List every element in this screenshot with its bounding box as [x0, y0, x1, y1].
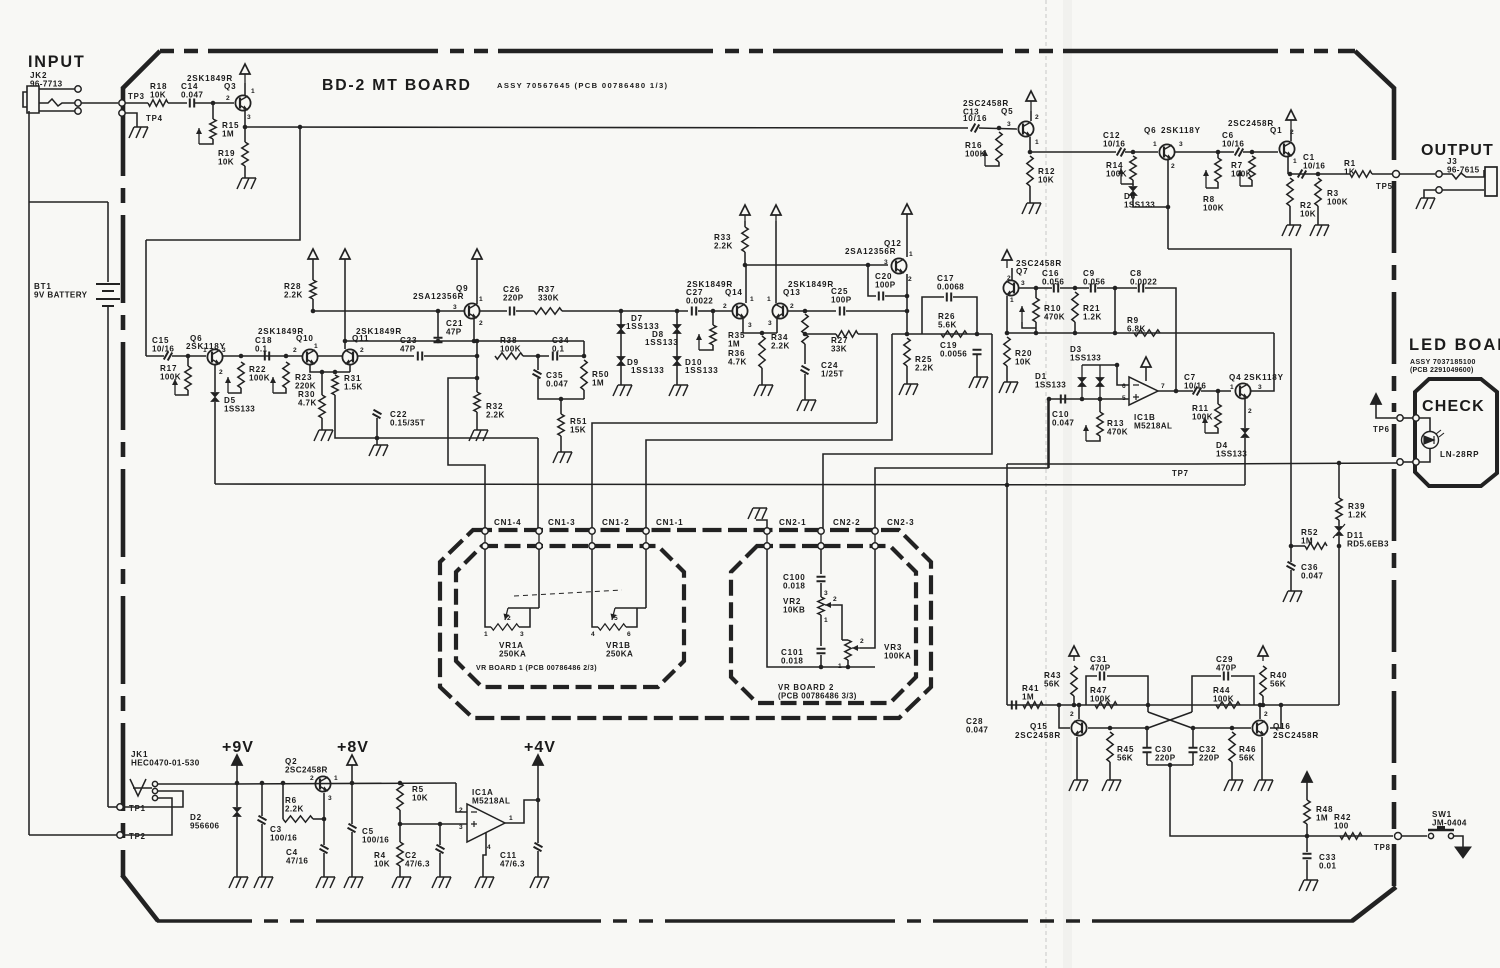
resistor R2: [1287, 178, 1293, 206]
svg-text:10/16: 10/16: [1222, 140, 1244, 149]
capacitor C19: [973, 350, 982, 354]
wire Q13 to C25: [788, 310, 836, 312]
svg-text:10/16: 10/16: [152, 345, 174, 354]
capacitor C26: [510, 307, 514, 316]
wire TP8 to SW1: [1402, 835, 1427, 837]
wire R6 left leg: [282, 783, 284, 819]
wire C15 to Qa: [172, 355, 206, 357]
wire R45 to ground: [1109, 762, 1111, 780]
capacitor C10: [1061, 395, 1065, 404]
resistor R26: [941, 331, 967, 337]
svg-text:2: 2: [226, 95, 230, 102]
ground under C19: [969, 377, 988, 388]
svg-text:220P: 220P: [503, 294, 524, 303]
resistor R23: [283, 362, 289, 388]
wire C101 to rail: [820, 655, 822, 667]
svg-text:TP4: TP4: [146, 114, 163, 123]
wire VR1A right lead: [519, 608, 530, 627]
svg-text:0.047: 0.047: [181, 91, 203, 100]
resistor R48: [1304, 800, 1310, 824]
power arrow IC1B: [1141, 357, 1151, 367]
wire J3 sleeve to ground: [1424, 190, 1436, 198]
connector CN2-3 pin (board side): [872, 528, 878, 534]
op-amp IC1A: [467, 804, 505, 842]
wire C34 to node B: [559, 355, 584, 357]
node C36 top: [1289, 544, 1294, 549]
svg-text:4.7K: 4.7K: [298, 399, 317, 408]
wire R21 bottom: [1074, 322, 1076, 333]
wire input signal to TP3: [81, 102, 118, 104]
node D2 bottom: [1098, 397, 1103, 402]
svg-text:1: 1: [909, 251, 913, 258]
svg-text:ASSY 70567645 (PCB 00786480 1/: ASSY 70567645 (PCB 00786480 1/3): [497, 81, 668, 90]
connector CN1-2 pin (VR side): [589, 543, 595, 549]
capacitor C34: [553, 352, 557, 361]
wire R38 to C34: [523, 355, 549, 357]
wire VR1B wiper box: [615, 607, 646, 609]
power arrow Q5: [1026, 91, 1036, 101]
node CN1-4 tap: [475, 376, 480, 381]
wire rail R9: [1007, 332, 1176, 334]
node cross left top: [1146, 703, 1151, 708]
wire R33 to base rail: [744, 252, 746, 265]
wire Q6b feedback to R52 column: [1168, 249, 1291, 546]
wire R5 to R4 node: [399, 810, 401, 842]
wire R52 to C36: [1291, 545, 1305, 547]
wire Q4 source right up: [1251, 333, 1274, 391]
wire C3 to ground: [261, 824, 263, 877]
svg-text:TP6: TP6: [1373, 425, 1390, 434]
wire C24 to ground: [804, 374, 806, 400]
svg-text:100K: 100K: [500, 345, 521, 354]
node R21 top: [1073, 286, 1078, 291]
wire JK1 sw loop2: [124, 798, 172, 835]
wire C20 branch: [868, 265, 876, 296]
svg-text:0.047: 0.047: [1052, 419, 1074, 428]
svg-text:100K: 100K: [965, 150, 986, 159]
transistor Q6 (2SK118Y): [207, 349, 222, 364]
wire R23 loop: [273, 388, 286, 393]
svg-text:6: 6: [627, 631, 631, 638]
svg-text:470P: 470P: [1090, 664, 1111, 673]
wire VR3 wiper to CN2-3: [860, 549, 875, 648]
node Q7/R20: [1005, 331, 1010, 336]
diode D2: [1096, 378, 1104, 387]
node R51 top: [559, 397, 564, 402]
svg-text:(PCB 00786486 3/3): (PCB 00786486 3/3): [778, 692, 857, 701]
wire C4 column: [323, 819, 325, 845]
resistor R1: [1350, 171, 1372, 177]
resistor R42: [1340, 833, 1362, 839]
wire row y341: [345, 340, 584, 342]
svg-text:HEC0470-01-530: HEC0470-01-530: [131, 759, 200, 768]
wire R17 lead: [187, 356, 189, 366]
wire C31 loop right: [1107, 676, 1148, 705]
svg-text:3: 3: [459, 824, 463, 831]
wire R10 bottom: [1035, 322, 1037, 333]
svg-text:Q13: Q13: [783, 288, 801, 297]
potentiometer VR1A: [491, 624, 519, 630]
svg-text:47/6.3: 47/6.3: [405, 860, 430, 869]
wire IC1A pin4: [483, 833, 486, 877]
wire IC1A out to +4V node: [505, 800, 538, 823]
wire node B vertical: [583, 341, 585, 356]
wire R12 to ground: [1029, 186, 1031, 203]
wire J3 sleeve: [1442, 189, 1484, 191]
ground under D9: [613, 385, 632, 396]
wire jack sleeve down left: [28, 111, 30, 835]
wire Q16 base: [1270, 705, 1281, 728]
node R13 top: [1098, 397, 1103, 402]
resistor R52: [1305, 543, 1327, 549]
node A top: [475, 339, 480, 344]
svg-text:Q6: Q6: [1144, 126, 1156, 135]
wire R22 loop: [228, 388, 241, 393]
svg-text:3: 3: [1258, 384, 1262, 391]
ground under R2: [1282, 225, 1301, 236]
capacitor C11: [534, 843, 543, 851]
svg-text:2.2K: 2.2K: [714, 242, 733, 251]
svg-text:2: 2: [459, 807, 463, 814]
svg-text:100KA: 100KA: [884, 652, 911, 661]
resistor VR2: [818, 597, 824, 615]
wire C35 bottom: [538, 378, 584, 399]
power arrow Q7: [1002, 250, 1012, 260]
svg-text:1: 1: [750, 296, 754, 303]
wire C8 to corner: [1145, 288, 1176, 333]
resistor R9: [1134, 330, 1160, 336]
node R11 top: [1216, 389, 1221, 394]
transistor Q1: [1279, 141, 1294, 156]
wire +8V stem: [351, 765, 353, 783]
capacitor C9: [1091, 284, 1095, 293]
wire R2 ground lead: [1289, 206, 1291, 225]
node C9/C8 rail: [1113, 331, 1118, 336]
node R39 top: [1337, 461, 1342, 466]
wire R46 to ground: [1231, 762, 1233, 780]
wire TP6 to LED: [1419, 418, 1430, 431]
switch SW1 contact b: [1448, 833, 1453, 838]
wire Q11 out row: [358, 355, 414, 357]
svg-text:2SA12356R: 2SA12356R: [845, 247, 896, 256]
svg-text:47/16: 47/16: [286, 857, 308, 866]
ground under R3: [1310, 225, 1329, 236]
svg-text:96-7615: 96-7615: [1447, 166, 1480, 175]
wire Q13 drain up: [775, 221, 777, 303]
node R27 left: [803, 332, 808, 337]
wire Q15 collector: [1078, 705, 1080, 719]
svg-text:1: 1: [1293, 158, 1297, 165]
MT board outline: top-left chamfer: [122, 51, 160, 89]
svg-text:CN2-2: CN2-2: [833, 518, 860, 527]
wire C26 to R37: [516, 310, 534, 312]
svg-text:2: 2: [1171, 163, 1175, 170]
J3 sleeve contact: [1436, 187, 1442, 193]
test point TP6 (LED side): [1413, 415, 1419, 421]
wire JK1 sw loop1: [124, 791, 183, 807]
VR board 2 dashed box: [731, 546, 916, 703]
wire CN2-1 ground stub: [756, 520, 767, 528]
JK1 contact 3: [152, 795, 157, 800]
svg-text:1SS133: 1SS133: [1035, 381, 1066, 390]
svg-text:1SS133: 1SS133: [685, 366, 719, 375]
svg-text:470P: 470P: [1216, 664, 1237, 673]
wire TP7 link: [1402, 461, 1414, 463]
wire C3 column: [261, 783, 263, 816]
wire R14 loop: [1121, 180, 1133, 184]
svg-text:2: 2: [1248, 408, 1252, 415]
capacitor C14: [190, 99, 194, 108]
wire C20 to Q12 emitter: [885, 295, 908, 297]
ground under C11: [530, 877, 549, 888]
ground under R30: [314, 430, 333, 441]
ground under R51: [553, 452, 572, 463]
MT board outline: right edge segment: [1392, 469, 1397, 829]
wire R37 to diode ladder: [562, 310, 688, 312]
svg-text:CN1-2: CN1-2: [602, 518, 629, 527]
wire CN pin link: [766, 534, 768, 543]
svg-text:10K: 10K: [218, 158, 234, 167]
capacitor C17: [947, 293, 951, 302]
power arrow Q1: [1286, 110, 1296, 120]
svg-text:2: 2: [790, 303, 794, 310]
node Q12 emitter/C20: [905, 294, 910, 299]
node D box top: [1115, 363, 1120, 368]
capacitor C27: [692, 307, 696, 316]
svg-text:10K: 10K: [1300, 210, 1316, 219]
svg-text:3: 3: [824, 590, 828, 597]
wire Q6b source down: [1167, 160, 1169, 249]
svg-text:1: 1: [251, 88, 255, 95]
resistor R20: [1004, 337, 1010, 366]
svg-text:3: 3: [768, 320, 772, 327]
svg-text:TP5: TP5: [1376, 182, 1393, 191]
svg-text:2.2K: 2.2K: [771, 342, 790, 351]
svg-text:3: 3: [328, 795, 332, 802]
wire C27 to Q14: [698, 310, 713, 312]
wire R27 to riser: [858, 334, 877, 423]
resistor R22: [238, 362, 244, 388]
wire TP6 link: [1402, 417, 1414, 419]
resistor R12: [1027, 156, 1033, 186]
svg-text:LED BOARD: LED BOARD: [1409, 336, 1500, 354]
ground under C5: [344, 877, 363, 888]
svg-text:1M: 1M: [1316, 814, 1328, 823]
arrow R16: [984, 150, 986, 166]
svg-text:Q15: Q15: [1030, 722, 1048, 731]
node Vref: [398, 822, 403, 827]
svg-text:56K: 56K: [1239, 754, 1255, 763]
node R17 top: [186, 354, 191, 359]
node Q16 coll: [1258, 703, 1263, 708]
power arrow Q10/Q11 drains: [340, 249, 350, 259]
svg-text:10/16: 10/16: [1303, 162, 1325, 171]
svg-text:100P: 100P: [875, 281, 896, 290]
wire Q2 emitter down: [323, 793, 325, 819]
node R2 top: [1288, 172, 1293, 177]
svg-text:956606: 956606: [190, 822, 220, 831]
node R40 rail: [1261, 703, 1266, 708]
node C20 left: [866, 263, 871, 268]
wiper VR3: [852, 647, 860, 649]
wire C9 to C8: [1097, 287, 1137, 289]
wire R19 to ground: [244, 166, 246, 178]
capacitor C31: [1100, 672, 1104, 681]
JK1 contact 2: [152, 788, 157, 793]
wire C2 to ground: [439, 853, 441, 877]
diode D5: [211, 393, 219, 402]
wire C29 loop left: [1192, 676, 1221, 705]
MT board outline: top edge: [160, 49, 1355, 54]
capacitor C28: [1012, 701, 1016, 710]
MT board outline: left edge: [121, 88, 126, 876]
wire R33 leads: [744, 221, 746, 227]
svg-text:1: 1: [314, 343, 318, 350]
wire R33 bottom to Q14 drain: [745, 265, 747, 303]
svg-text:2.2K: 2.2K: [285, 805, 304, 814]
svg-text:TP7: TP7: [1172, 469, 1189, 478]
arrow R13: [1085, 425, 1087, 441]
node C4 top: [322, 817, 327, 822]
ground under R46: [1224, 780, 1243, 791]
ground under R25: [899, 384, 918, 395]
transistor Q4: [1235, 383, 1250, 398]
wire R51 to ground: [560, 436, 562, 452]
power arrow R43: [1069, 646, 1079, 656]
chassis ground under SW1: [1455, 847, 1471, 858]
test point TP6 (board): [1397, 415, 1403, 421]
wire R11 loop: [1205, 428, 1218, 433]
MT board outline: bottom-left chamfer: [122, 875, 158, 921]
ground under C24: [797, 400, 816, 411]
wire osc out down: [1170, 765, 1393, 836]
ground under R20: [999, 382, 1018, 393]
wire cross diag A: [1148, 712, 1192, 728]
diode D6: [1129, 187, 1137, 196]
svg-text:1.2K: 1.2K: [1083, 313, 1102, 322]
wire Q5 collector: [1030, 111, 1032, 121]
svg-text:0.1: 0.1: [552, 345, 565, 354]
wire D8/D10 column: [676, 311, 678, 385]
node R3 top: [1316, 172, 1321, 177]
wire cross stub right: [1191, 705, 1193, 712]
svg-text:10K: 10K: [150, 91, 166, 100]
node Q5 emitter: [1028, 150, 1033, 155]
wire VR1B right lead: [626, 608, 637, 627]
resistor R50: [581, 360, 587, 390]
resistor R5: [397, 783, 403, 810]
svg-text:2.2K: 2.2K: [284, 291, 303, 300]
wire Q3 source down to bus: [244, 111, 246, 127]
svg-text:0.0056: 0.0056: [940, 350, 967, 359]
ground under C36: [1283, 591, 1302, 602]
resistor R36: [759, 336, 765, 368]
svg-text:5: 5: [1122, 395, 1126, 402]
wire TP7 riser/drop: [1006, 464, 1008, 705]
wire LED to TP7: [1419, 448, 1430, 462]
arrow loop R10: [1022, 322, 1036, 328]
svg-text:10/16: 10/16: [1103, 140, 1125, 149]
node R30 top: [320, 370, 325, 375]
wire CN pin link: [538, 534, 540, 543]
svg-text:10KB: 10KB: [783, 606, 805, 615]
transistor Q14: [732, 303, 747, 318]
wire Qa source down: [214, 365, 216, 392]
wire Q15 base: [1059, 705, 1070, 728]
wire sleeve to battery top: [29, 201, 108, 203]
wire D1 column: [1081, 365, 1083, 399]
wire CN1-4 link: [448, 378, 485, 528]
wire C4 to ground: [323, 853, 325, 877]
node B: [582, 354, 587, 359]
svg-text:Q14: Q14: [725, 288, 743, 297]
ground under Q15: [1069, 780, 1088, 791]
node C22 tap: [375, 436, 380, 441]
svg-text:10/16: 10/16: [963, 114, 987, 123]
svg-text:100K: 100K: [1203, 204, 1224, 213]
svg-text:2: 2: [293, 347, 297, 354]
wire R14 to D6: [1132, 184, 1134, 186]
output jack J3 body: [1485, 167, 1497, 196]
node R7 top: [1250, 150, 1255, 155]
svg-text:4: 4: [591, 631, 595, 638]
arrow R11: [1204, 417, 1206, 433]
svg-text:2SA12356R: 2SA12356R: [413, 292, 464, 301]
node R36 top: [760, 331, 765, 336]
svg-text:1SS133: 1SS133: [224, 405, 255, 414]
node R35 top: [711, 309, 716, 314]
wire cross diag B: [1148, 712, 1192, 728]
wire C25 to Q12 node: [846, 310, 908, 312]
wire C30 bottom: [1146, 752, 1148, 765]
svg-text:9V BATTERY: 9V BATTERY: [34, 291, 88, 300]
MT board outline: bottom-right chamfer: [1352, 887, 1396, 921]
node A bottom: [475, 354, 480, 359]
transistor Q5: [1018, 121, 1033, 136]
connector CN1-3 pin (board side): [536, 528, 542, 534]
wire TP5 to J3: [1400, 173, 1435, 175]
resistor R7: [1249, 156, 1255, 180]
wire R39 to D11: [1338, 520, 1340, 526]
diode D9: [617, 357, 625, 366]
node C3: [260, 781, 265, 786]
wire R10 lead: [1035, 288, 1037, 298]
capacitor C3: [258, 816, 267, 824]
wire R18 to C14: [168, 102, 187, 104]
ground under R19: [237, 178, 256, 189]
power arrow R33: [740, 205, 750, 215]
resistor R25: [904, 338, 910, 366]
transistor Q10: [302, 349, 317, 364]
node R10 rail: [1034, 331, 1039, 336]
wiper VR2: [825, 604, 833, 606]
test point TP2 circle: [117, 832, 123, 838]
svg-text:1: 1: [1153, 141, 1157, 148]
wire bus down to mid feedback: [146, 127, 300, 240]
wire Q10 source down: [310, 365, 350, 372]
resistor R51: [558, 414, 564, 436]
svg-text:100K: 100K: [249, 374, 270, 383]
capacitor C5: [348, 824, 357, 832]
ground under R36: [754, 385, 773, 396]
VR board 1 dashed box: [456, 546, 684, 687]
node TP7 drop: [1005, 483, 1010, 488]
svg-text:250KA: 250KA: [606, 650, 633, 659]
wire Q16 collector: [1259, 705, 1261, 719]
svg-text:6: 6: [1122, 383, 1126, 390]
transistor Q7: [1003, 280, 1018, 295]
resistor R19: [242, 142, 248, 166]
